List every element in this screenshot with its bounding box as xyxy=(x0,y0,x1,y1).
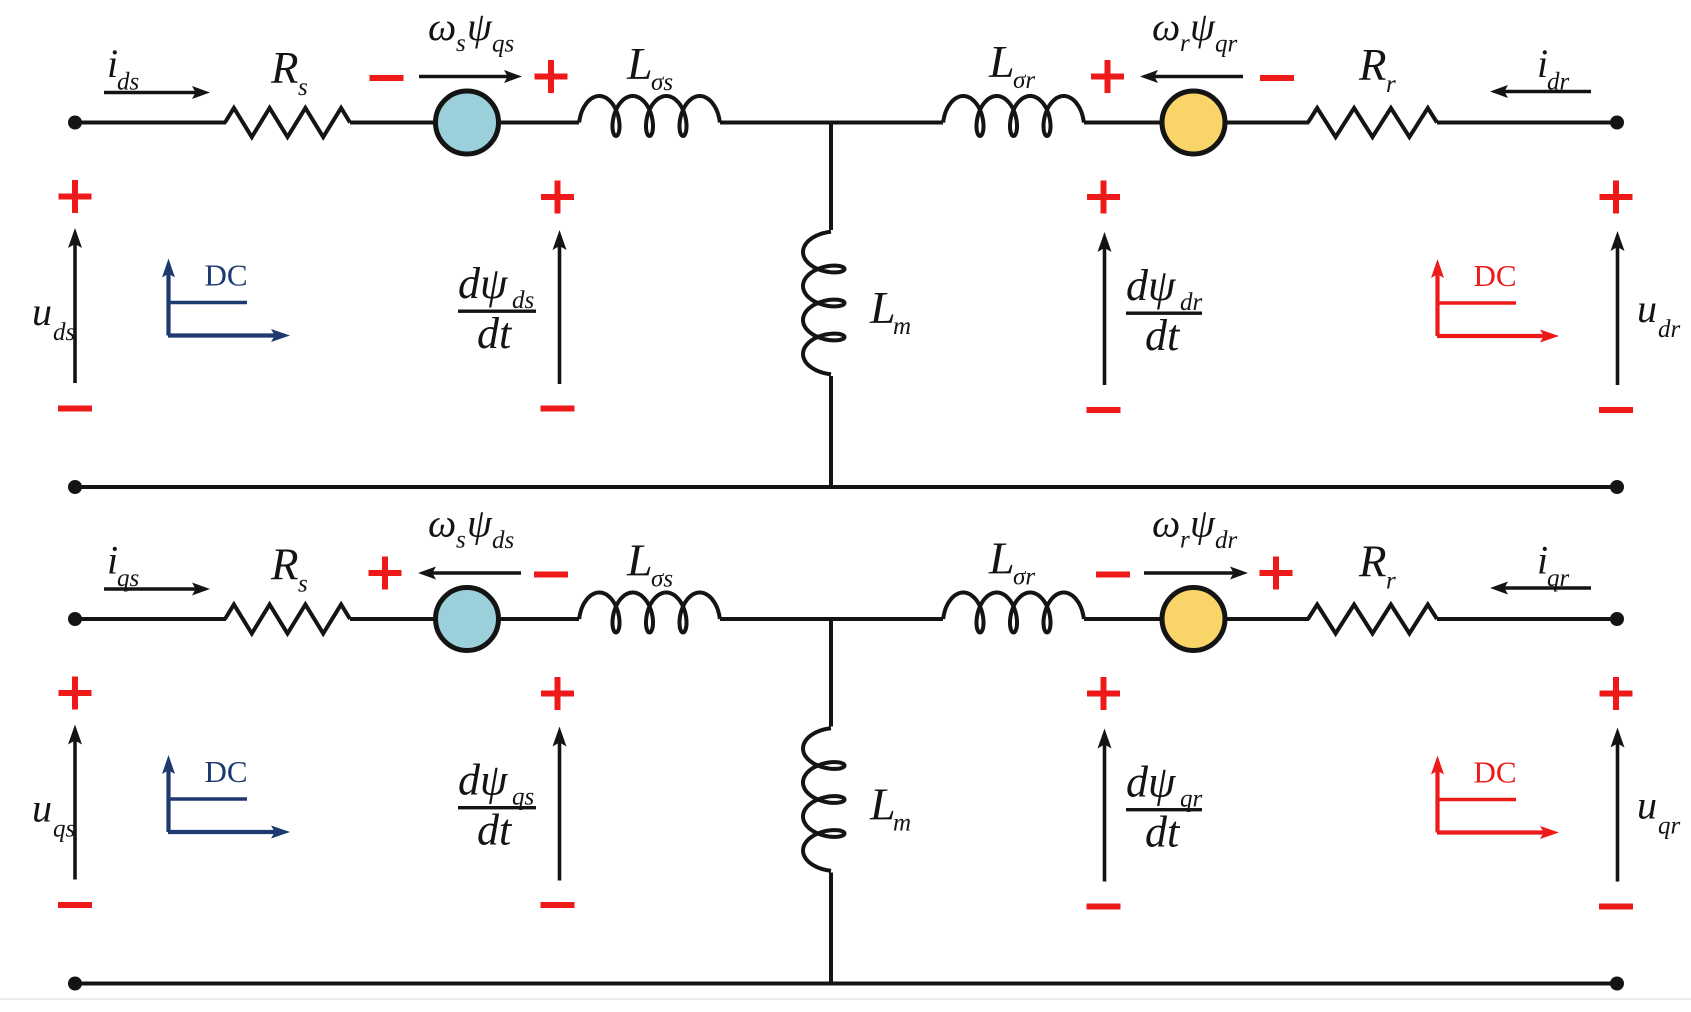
wire: L_sigma_r to rotor emf source xyxy=(1084,617,1163,621)
node: left stator terminal (q-axis) xyxy=(68,612,82,626)
inductor L_m (magnetizing) xyxy=(803,232,845,375)
svg-text:σs: σs xyxy=(651,566,673,593)
wire: rotor emf to R_r xyxy=(1225,617,1309,621)
wire: source to L_sigma_s xyxy=(498,617,579,621)
wire: R_r to right rotor terminal xyxy=(1437,617,1617,621)
svg-text:r: r xyxy=(1180,527,1190,554)
svg-text:u: u xyxy=(1637,286,1657,331)
voltage arrow u_dr xyxy=(1616,247,1620,385)
inductor L_sigma_s (stator leakage) xyxy=(579,593,720,633)
wire: L_m down to bottom rail xyxy=(829,376,833,487)
polarity minus (bottom of dpsi_ds/dt) xyxy=(541,406,575,412)
inductor L_sigma_r (rotor leakage) xyxy=(943,593,1084,633)
voltage source (speed emf, rotor, yellow circle) xyxy=(1162,588,1225,651)
polarity plus (top of dpsi_qr/dt) xyxy=(1087,691,1120,697)
svg-text:ψ: ψ xyxy=(1190,501,1216,546)
resistor R_r xyxy=(1308,605,1437,634)
node: left stator terminal (d-axis) xyxy=(68,116,82,130)
svg-text:dr: dr xyxy=(1215,527,1238,554)
svg-text:ds: ds xyxy=(53,319,75,346)
polarity minus (bottom of dpsi_qr/dt) xyxy=(1087,904,1121,910)
svg-text:qs: qs xyxy=(117,565,139,592)
svg-text:qs: qs xyxy=(492,31,514,58)
voltage arrow u_qr xyxy=(1616,744,1620,882)
DC axes icon (rotor frame, red) xyxy=(1435,274,1439,336)
inductor L_sigma_s (stator leakage) xyxy=(579,96,720,136)
voltage source (speed emf, stator, blue circle) xyxy=(436,588,499,651)
wire: R_r to right rotor terminal xyxy=(1437,121,1617,125)
svg-text:R: R xyxy=(270,540,299,590)
svg-text:dψ: dψ xyxy=(1126,758,1176,807)
polarity plus (top of u_qs) xyxy=(59,690,92,696)
svg-text:ψ: ψ xyxy=(1190,4,1216,49)
wire: center node down to L_m xyxy=(829,617,833,727)
voltage source (speed emf, stator, blue circle) xyxy=(436,91,499,154)
inductor L_sigma_r (rotor leakage) xyxy=(943,96,1084,136)
svg-text:R: R xyxy=(1358,537,1387,587)
wire: L_sigma_r to rotor emf source xyxy=(1084,121,1163,125)
emf direction arrow (leftward) xyxy=(1154,75,1243,79)
polarity plus (left of stator emf) xyxy=(369,570,402,576)
polarity plus (left of rotor emf) xyxy=(1091,74,1124,80)
svg-text:s: s xyxy=(456,30,466,57)
wire: faint page separator line xyxy=(0,998,1691,1000)
wire: L_sigma_s to center node and to L_sigma_r xyxy=(720,617,943,621)
svg-text:L: L xyxy=(988,533,1015,584)
svg-text:DC: DC xyxy=(1474,755,1517,790)
resistor R_r xyxy=(1308,108,1437,137)
voltage source (speed emf, rotor, yellow circle) xyxy=(1162,91,1225,154)
polarity minus (bottom of u_ds) xyxy=(58,406,92,412)
voltage arrow dpsi_ds/dt xyxy=(558,246,562,384)
wire: left terminal to Rs xyxy=(75,121,226,125)
DC axes icon (stator frame, navy) xyxy=(166,274,170,336)
node: middle rail left junction xyxy=(68,480,82,494)
svg-text:s: s xyxy=(298,74,308,101)
svg-text:dr: dr xyxy=(1547,69,1570,96)
svg-text:L: L xyxy=(869,779,896,830)
wire: middle common rail xyxy=(75,485,1617,489)
polarity plus (top of u_qr) xyxy=(1600,691,1633,697)
polarity plus (right of stator emf) xyxy=(535,74,568,80)
svg-text:σr: σr xyxy=(1013,67,1035,94)
inductor L_m (magnetizing) xyxy=(803,728,845,871)
svg-text:R: R xyxy=(1358,40,1387,90)
polarity minus (bottom of u_qs) xyxy=(58,902,92,908)
svg-text:ψ: ψ xyxy=(467,4,493,49)
wire: source to L_sigma_s xyxy=(498,121,579,125)
emf direction arrow (rightward) xyxy=(419,75,508,79)
wire: rotor emf to R_r xyxy=(1225,121,1309,125)
svg-text:ω: ω xyxy=(428,501,456,546)
svg-text:qs: qs xyxy=(53,816,75,843)
svg-text:R: R xyxy=(270,43,299,93)
svg-text:u: u xyxy=(32,289,52,334)
polarity minus (right of rotor emf) xyxy=(1260,75,1294,81)
svg-text:ψ: ψ xyxy=(467,501,493,546)
svg-text:σr: σr xyxy=(1013,564,1035,591)
node: right rotor terminal xyxy=(1610,116,1624,130)
svg-text:dt: dt xyxy=(477,806,513,855)
polarity minus (right of stator emf) xyxy=(534,572,568,578)
svg-text:dt: dt xyxy=(1145,808,1181,857)
node: bottom rail right junction xyxy=(1610,977,1624,991)
emf direction arrow (rightward) xyxy=(1144,571,1234,575)
polarity plus (top of u_dr) xyxy=(1600,194,1633,200)
polarity minus (left of rotor emf) xyxy=(1096,572,1130,578)
svg-text:ds: ds xyxy=(117,69,139,96)
node: bottom rail left junction xyxy=(68,977,82,991)
svg-text:r: r xyxy=(1180,30,1190,57)
resistor R_s xyxy=(225,108,350,137)
polarity plus (top of dpsi_qs/dt) xyxy=(541,691,574,697)
voltage arrow dpsi_qs/dt xyxy=(558,743,562,881)
emf direction arrow (leftward) xyxy=(432,571,521,575)
polarity minus (bottom of u_qr) xyxy=(1599,904,1633,910)
wire: bottom common rail xyxy=(75,982,1617,986)
polarity minus (bottom of dpsi_dr/dt) xyxy=(1087,407,1121,413)
svg-text:dt: dt xyxy=(1145,311,1181,360)
svg-text:σs: σs xyxy=(651,69,673,96)
svg-text:dψ: dψ xyxy=(458,259,508,308)
resistor R_s xyxy=(225,605,350,634)
wire: L_sigma_s to center node and to L_sigma_r xyxy=(720,121,943,125)
svg-text:dψ: dψ xyxy=(1126,261,1176,310)
polarity plus (right of rotor emf) xyxy=(1260,570,1293,576)
DC axes icon (stator frame, navy) xyxy=(166,770,170,832)
voltage arrow dpsi_qr/dt xyxy=(1103,745,1107,882)
wire: left terminal to Rs xyxy=(75,617,226,621)
voltage arrow u_qs xyxy=(73,741,77,880)
svg-text:L: L xyxy=(626,535,653,586)
voltage arrow dpsi_dr/dt xyxy=(1103,248,1107,385)
svg-text:m: m xyxy=(893,810,911,837)
polarity minus (bottom of dpsi_qs/dt) xyxy=(541,902,575,908)
svg-text:DC: DC xyxy=(205,258,248,293)
svg-text:s: s xyxy=(298,571,308,598)
svg-text:qr: qr xyxy=(1658,813,1681,840)
svg-text:qr: qr xyxy=(1215,31,1238,58)
svg-text:L: L xyxy=(869,282,896,333)
polarity minus (left of stator emf) xyxy=(370,75,404,81)
svg-text:DC: DC xyxy=(1474,258,1517,293)
current arrow i_dr (leftward) xyxy=(1504,90,1591,94)
svg-text:u: u xyxy=(32,786,52,831)
polarity plus (top of u_ds) xyxy=(59,194,92,200)
node: right rotor terminal xyxy=(1610,612,1624,626)
voltage arrow u_ds xyxy=(73,244,77,383)
current arrow i_ds xyxy=(104,91,196,95)
svg-text:ω: ω xyxy=(1152,501,1180,546)
svg-text:qr: qr xyxy=(1547,565,1570,592)
svg-text:dr: dr xyxy=(1658,316,1681,343)
wire: center node down to L_m xyxy=(829,121,833,231)
current arrow i_qs xyxy=(104,587,196,591)
svg-text:L: L xyxy=(626,38,653,89)
svg-text:s: s xyxy=(456,527,466,554)
DC axes icon (rotor frame, red) xyxy=(1435,771,1439,833)
polarity plus (top of dpsi_dr/dt) xyxy=(1087,194,1120,200)
polarity minus (bottom of u_dr) xyxy=(1599,407,1633,413)
wire: L_m down to bottom rail xyxy=(829,873,833,984)
node: middle rail right junction xyxy=(1610,480,1624,494)
wire: Rs to speed-emf source xyxy=(350,617,436,621)
svg-text:ω: ω xyxy=(1152,4,1180,49)
polarity plus (top of dpsi_ds/dt) xyxy=(541,194,574,200)
svg-text:L: L xyxy=(988,36,1015,87)
svg-text:ds: ds xyxy=(492,527,514,554)
wire: Rs to speed-emf source xyxy=(350,121,436,125)
svg-text:m: m xyxy=(893,313,911,340)
svg-text:DC: DC xyxy=(205,754,248,789)
svg-text:u: u xyxy=(1637,783,1657,828)
svg-text:dψ: dψ xyxy=(458,756,508,805)
svg-text:r: r xyxy=(1386,568,1396,595)
svg-text:r: r xyxy=(1386,71,1396,98)
current arrow i_qr (leftward) xyxy=(1504,586,1591,590)
svg-text:ω: ω xyxy=(428,4,456,49)
svg-text:dt: dt xyxy=(477,309,513,358)
